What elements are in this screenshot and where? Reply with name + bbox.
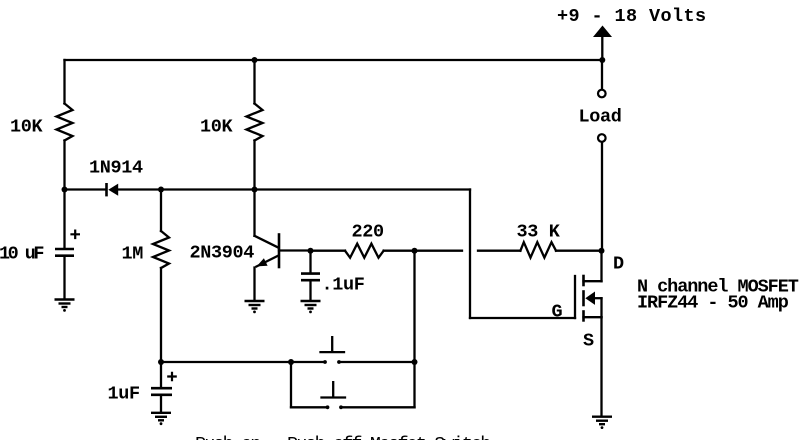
wire .1uF top lead: [309, 251, 311, 273]
ground (MOSFET source): [592, 417, 612, 429]
wire drain vertical: [600, 251, 602, 282]
mosfet Q2 source lead: [584, 316, 602, 318]
switch S2 contact right: [339, 405, 343, 409]
wire 33K to drain node: [556, 250, 602, 252]
transistor Q1 emitter diagonal: [257, 256, 279, 267]
wire 220 to crossover: [384, 250, 462, 252]
wire 1uF top lead: [160, 362, 162, 387]
wire base lead: [279, 249, 311, 251]
wire middle vertical upper: [253, 60, 255, 104]
wire 1M top lead: [160, 190, 162, 232]
wire pushbutton feed: [161, 361, 324, 363]
transistor Q1 emitter arrow: [257, 258, 268, 266]
svg-text:+9 - 18 Volts: +9 - 18 Volts: [557, 6, 707, 27]
transistor Q1 collector wire: [253, 190, 255, 236]
ground (1uF): [151, 413, 171, 425]
svg-text:.1uF: .1uF: [322, 275, 365, 296]
svg-text:10 uF: 10 uF: [0, 244, 43, 265]
ground (Q1 emitter): [245, 301, 265, 313]
resistor R3 1M: [153, 231, 169, 268]
power arrow +V: [593, 26, 612, 38]
resistor R5 33K: [520, 242, 556, 257]
node pushbutton net top junction: [412, 248, 418, 254]
switch S2 contact left: [326, 405, 330, 409]
mosfet Q2 drain lead: [584, 280, 602, 282]
load terminal bottom circle: [598, 134, 606, 142]
diode D1 1N914 triangle: [108, 184, 118, 196]
transistor Q1 base bar: [278, 235, 281, 268]
wire middle vertical lower: [253, 141, 255, 190]
svg-text:1N914: 1N914: [89, 158, 143, 179]
svg-text:10K: 10K: [10, 117, 44, 138]
wire source to ground: [600, 317, 602, 416]
wire pushbutton2 right: [342, 406, 415, 408]
wire crossover to 33K: [478, 250, 520, 252]
wire 10uF bottom lead: [63, 257, 65, 299]
resistor R1 10K left: [57, 104, 73, 141]
node collector junction: [252, 187, 258, 193]
wire top rail: [65, 59, 603, 61]
capacitor C2 .1uF plates: [301, 274, 320, 281]
capacitor C3 1uF plates: [151, 388, 172, 395]
node diode row left junction: [62, 187, 68, 193]
wire diode row left: [65, 188, 107, 190]
switch S2 actuator: [322, 382, 346, 397]
switch S1 contact left: [323, 360, 327, 364]
wire diode row right: [118, 188, 470, 190]
wire pushbutton2 left: [291, 406, 327, 408]
svg-text:IRFZ44 - 50 Amp: IRFZ44 - 50 Amp: [637, 293, 789, 314]
resistor R2 10K middle: [247, 104, 263, 141]
node base junction: [308, 248, 314, 254]
svg-text:1uF: 1uF: [108, 384, 140, 405]
node rail-R2 junction: [252, 57, 258, 63]
node pushbutton branch junction: [288, 359, 294, 365]
wire feedback vertical: [469, 190, 471, 319]
wire 10uF top lead: [63, 190, 65, 249]
wire load to drain node: [601, 143, 603, 251]
svg-text:1M: 1M: [122, 244, 144, 265]
ground (10uF): [55, 300, 75, 312]
svg-text:33 K: 33 K: [517, 222, 561, 243]
mosfet Q2 gate bar: [574, 276, 576, 318]
mosfet Q2 channel bottom: [582, 312, 585, 321]
diode D1 1N914 cathode bar: [105, 183, 108, 196]
mosfet Q2 channel middle: [582, 292, 585, 306]
switch S1 actuator: [321, 337, 345, 352]
wire left vertical upper: [63, 60, 65, 104]
node drain junction: [599, 248, 605, 254]
svg-text:10K: 10K: [200, 117, 234, 138]
wire rail to load terminal: [601, 60, 603, 89]
mosfet Q2 body-source vertical: [600, 298, 602, 317]
node diode-1M junction: [158, 187, 164, 193]
capacitor C1 10uF plates: [55, 249, 74, 256]
transistor Q1 collector diagonal: [255, 236, 279, 248]
wire pushbutton1 right: [340, 361, 415, 363]
svg-text:G: G: [552, 302, 563, 323]
svg-text:S: S: [583, 331, 594, 352]
svg-text:Load: Load: [579, 107, 622, 128]
wire 1uF bottom lead: [160, 396, 162, 413]
node 1M-1uF junction: [158, 359, 164, 365]
mosfet Q2 body lead: [594, 297, 602, 299]
wire gate horizontal: [470, 317, 575, 319]
resistor R4 220: [345, 244, 384, 258]
capacitor C1 plus sign: [70, 230, 80, 240]
wire .1uF bottom lead: [309, 281, 311, 300]
ground (.1uF): [301, 301, 321, 313]
wire supply stem: [601, 37, 603, 60]
wire left vertical lower: [63, 141, 65, 190]
mosfet Q2 substrate arrow: [585, 292, 595, 305]
switch S1 contact right: [337, 360, 341, 364]
wire pushbutton branch vertical: [290, 362, 292, 407]
svg-text:2N3904: 2N3904: [190, 243, 255, 264]
svg-text:220: 220: [352, 222, 385, 243]
svg-text:Push on - Push off Mosfet Swit: Push on - Push off Mosfet Switch: [195, 434, 490, 440]
transistor Q1 emitter wire: [253, 268, 255, 301]
svg-text:D: D: [613, 254, 624, 275]
wire pushbutton net vertical: [413, 251, 415, 408]
mosfet Q2 channel top: [582, 276, 585, 285]
capacitor C3 plus sign: [167, 372, 177, 382]
wire base node to 220: [311, 250, 346, 252]
load terminal top circle: [598, 90, 606, 98]
node pushbutton net mid junction: [412, 359, 418, 365]
wire 1M bottom lead: [160, 268, 162, 362]
node rail-supply junction: [599, 57, 605, 63]
